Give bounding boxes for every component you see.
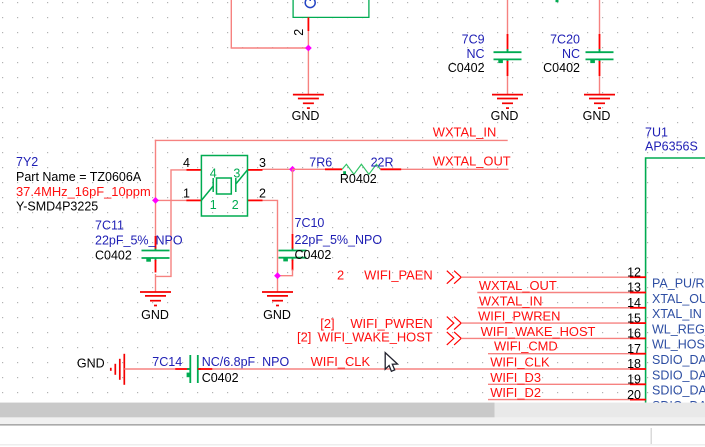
svg-text:[2]: [2] bbox=[297, 329, 311, 344]
wire WIFI_PAEN to pin 12 bbox=[461, 276, 631, 278]
ground symbol below U5 bbox=[293, 95, 324, 109]
power glyph inside U5 bbox=[305, 0, 315, 8]
crystal Y2 body bbox=[201, 156, 247, 217]
pin stub top of C20 bbox=[599, 34, 601, 50]
svg-text:2: 2 bbox=[292, 29, 306, 36]
svg-text:SDIO_DATA_0: SDIO_DATA_0 bbox=[652, 384, 705, 398]
svg-text:C0402: C0402 bbox=[202, 371, 239, 385]
pin stub right of C14 bbox=[198, 368, 213, 370]
junction node XIN bbox=[152, 197, 159, 204]
svg-text:WXTAL_OUT: WXTAL_OUT bbox=[479, 278, 557, 293]
svg-text:WIFI_D3: WIFI_D3 bbox=[490, 370, 541, 385]
pin stub left of C14 bbox=[175, 368, 190, 370]
svg-text:SDIO_DATA_3: SDIO_DATA_3 bbox=[652, 368, 705, 382]
svg-text:C0402: C0402 bbox=[543, 61, 580, 75]
wire junction down to C10 bbox=[292, 169, 294, 235]
resistor R6 green dot bbox=[343, 171, 346, 174]
svg-text:1: 1 bbox=[210, 198, 217, 212]
resistor R6 right stub bbox=[380, 168, 401, 170]
svg-text:WIFI_WAKE_HOST: WIFI_WAKE_HOST bbox=[318, 329, 433, 344]
resistor R6 zigzag bbox=[342, 164, 380, 174]
svg-text:SDIO_DATA_2: SDIO_DATA_2 bbox=[652, 353, 705, 367]
svg-text:C0402: C0402 bbox=[295, 248, 332, 262]
U1 pin 19 stub bbox=[630, 383, 646, 385]
pin stub bottom of C11 bbox=[155, 260, 157, 273]
capacitor C14 (7C14) rotated bbox=[187, 355, 201, 383]
svg-text:1: 1 bbox=[183, 187, 190, 201]
svg-text:18: 18 bbox=[627, 357, 641, 371]
wire net WXTAL_IN vertical down to C11 bbox=[155, 140, 157, 251]
wire above capacitor C9 bbox=[507, 0, 509, 36]
svg-text:C0402: C0402 bbox=[448, 61, 485, 75]
svg-text:R0402: R0402 bbox=[340, 172, 377, 186]
wire net GND horizontal to junction bbox=[231, 47, 309, 49]
svg-text:17: 17 bbox=[627, 342, 641, 356]
svg-text:WIFI_D2: WIFI_D2 bbox=[490, 385, 541, 400]
svg-text:GND: GND bbox=[77, 356, 105, 370]
svg-text:WL_HOST_WAKE: WL_HOST_WAKE bbox=[652, 338, 705, 352]
svg-text:16: 16 bbox=[627, 327, 641, 341]
wire WIFI_CMD to pin 17 bbox=[488, 353, 631, 355]
wire net WXTAL_IN horizontal bbox=[155, 139, 508, 141]
svg-text:3: 3 bbox=[259, 156, 266, 170]
wire crystal pin2 down to ground bbox=[263, 200, 278, 292]
svg-text:22pF_5%_NPO: 22pF_5%_NPO bbox=[95, 233, 183, 247]
svg-text:PA_PU/RF_DIS: PA_PU/RF_DIS bbox=[652, 277, 705, 291]
svg-text:19: 19 bbox=[627, 373, 641, 387]
U1 pin 17 stub bbox=[630, 353, 646, 355]
svg-text:2: 2 bbox=[259, 187, 266, 201]
svg-text:22R: 22R bbox=[371, 155, 394, 169]
U1 pin 18 stub bbox=[630, 368, 646, 370]
svg-text:3: 3 bbox=[233, 166, 240, 180]
pin 2 stub of U5 bbox=[307, 17, 309, 31]
svg-text:WIFI_CLK: WIFI_CLK bbox=[490, 355, 550, 370]
svg-text:37.4MHz_16pF_10ppm: 37.4MHz_16pF_10ppm bbox=[16, 184, 151, 199]
wire WIFI_D3 to pin 19 bbox=[488, 383, 631, 385]
pin stub top of C9 bbox=[507, 34, 509, 50]
svg-text:NC: NC bbox=[467, 47, 485, 61]
svg-text:22pF_5%_NPO: 22pF_5%_NPO bbox=[295, 233, 383, 247]
capacitor C9 (7C9) bbox=[494, 49, 522, 63]
svg-text:WIFI_CMD: WIFI_CMD bbox=[494, 339, 558, 354]
wire net GND top-left vertical bbox=[230, 0, 232, 48]
svg-text:14: 14 bbox=[627, 296, 641, 310]
wire WXTAL_OUT to pin 13 bbox=[477, 292, 631, 294]
svg-text:4: 4 bbox=[183, 156, 190, 170]
wire C11 to ground bbox=[155, 274, 157, 292]
component U1 box bbox=[646, 158, 705, 403]
capacitor C10 (7C10) bbox=[279, 247, 307, 261]
junction node GND bbox=[305, 45, 312, 52]
wire junction to crystal pin 1 bbox=[156, 199, 188, 201]
svg-text:XTAL_IN: XTAL_IN bbox=[652, 307, 702, 321]
U1 pin 13 stub bbox=[630, 292, 646, 294]
scrollbar bbox=[0, 403, 705, 418]
svg-text:7R6: 7R6 bbox=[309, 155, 332, 169]
svg-text:2: 2 bbox=[232, 198, 239, 212]
crystal Y2 pin 4 stub bbox=[186, 169, 201, 171]
svg-text:WXTAL_IN: WXTAL_IN bbox=[433, 125, 497, 140]
svg-text:7Y2: 7Y2 bbox=[16, 155, 38, 169]
svg-text:WIFI_PAEN: WIFI_PAEN bbox=[364, 268, 433, 283]
wire net WXTAL_OUT right of R6 bbox=[401, 168, 509, 170]
pin stub top of C11 bbox=[155, 236, 157, 249]
ground symbol below C20 bbox=[584, 95, 615, 109]
crystal Y2 pin 1 stub bbox=[186, 199, 201, 201]
svg-text:GND: GND bbox=[292, 109, 320, 123]
svg-text:15: 15 bbox=[627, 311, 641, 325]
U1 pin 20 stub bbox=[630, 399, 646, 401]
wire C9 to ground bbox=[507, 76, 509, 95]
svg-text:C0402: C0402 bbox=[95, 248, 132, 262]
wire GND to C14 bbox=[124, 368, 176, 370]
crystal Y2 pin 3 stub bbox=[248, 169, 263, 171]
svg-text:AP6356S: AP6356S bbox=[645, 139, 698, 153]
svg-text:2: 2 bbox=[337, 268, 344, 283]
U1 pin 12 stub bbox=[630, 276, 646, 278]
pin stub top of C10 bbox=[292, 234, 294, 249]
svg-text:7C10: 7C10 bbox=[295, 216, 325, 230]
svg-text:Y-SMD4P3225: Y-SMD4P3225 bbox=[16, 199, 98, 213]
svg-text:NC/6.8pF NPO: NC/6.8pF NPO bbox=[202, 355, 290, 369]
wire pin3 to junction bbox=[263, 168, 293, 170]
svg-text:GND: GND bbox=[491, 109, 519, 123]
svg-text:WIFI_WAKE_HOST: WIFI_WAKE_HOST bbox=[481, 324, 596, 339]
wire from U5 pin 2 down to GND symbol bbox=[307, 31, 309, 95]
svg-text:GND: GND bbox=[263, 308, 291, 322]
capacitor C20 (7C20) bbox=[586, 49, 614, 63]
wire WIFI_CLK from C14 to pin 18 bbox=[212, 368, 631, 370]
wire to resistor R6 bbox=[293, 168, 327, 170]
ground symbol rotated for C14 bbox=[111, 354, 125, 385]
svg-text:7C11: 7C11 bbox=[95, 218, 124, 232]
green tick top edge bbox=[556, 0, 559, 2]
svg-text:12: 12 bbox=[627, 265, 641, 279]
svg-text:WIFI_PWREN: WIFI_PWREN bbox=[478, 309, 560, 324]
svg-text:4: 4 bbox=[210, 166, 217, 180]
svg-text:13: 13 bbox=[627, 281, 641, 295]
ground symbol below C11 bbox=[140, 292, 171, 306]
svg-text:7C9: 7C9 bbox=[462, 33, 485, 47]
svg-text:GND: GND bbox=[583, 109, 611, 123]
svg-text:WXTAL_IN: WXTAL_IN bbox=[479, 293, 543, 308]
wire WXTAL_IN to pin 14 bbox=[477, 307, 631, 309]
svg-text:XTAL_OUT: XTAL_OUT bbox=[652, 292, 705, 306]
crystal Y2 pin 2 stub bbox=[248, 199, 263, 201]
svg-text:7C14: 7C14 bbox=[152, 355, 182, 369]
U1 pin 14 stub bbox=[630, 307, 646, 309]
ground symbol below C10 bbox=[262, 292, 293, 306]
junction node XOUT bbox=[289, 166, 296, 173]
pin stub bottom of C10 bbox=[292, 260, 294, 271]
component U5 partial box top bbox=[293, 0, 369, 17]
svg-text:WIFI_CLK: WIFI_CLK bbox=[311, 354, 371, 369]
svg-text:WL_REG_ON: WL_REG_ON bbox=[652, 322, 705, 336]
svg-text:GND: GND bbox=[141, 308, 169, 322]
wire C10 bottom to junction bbox=[278, 270, 293, 276]
pin stub bottom of C20 bbox=[599, 61, 601, 76]
svg-text:7U1: 7U1 bbox=[645, 125, 668, 139]
wire WIFI_D2 to pin 20 bbox=[488, 399, 631, 401]
wire pin4 to ground of C11 bbox=[156, 170, 187, 277]
ground symbol below C9 bbox=[492, 95, 523, 109]
off-page connector WIFI_PWREN bbox=[447, 317, 461, 330]
pin stub bottom of C9 bbox=[507, 61, 509, 76]
status bar bbox=[0, 417, 705, 424]
mouse cursor bbox=[385, 353, 397, 372]
off-page connector WIFI_WAKE_HOST bbox=[447, 332, 461, 345]
wire WIFI_PWREN to pin 15 bbox=[461, 322, 631, 324]
svg-text:WXTAL_OUT: WXTAL_OUT bbox=[433, 153, 511, 168]
wire above capacitor C20 bbox=[599, 0, 601, 36]
wire WIFI_WAKE_HOST to pin 16 bbox=[461, 337, 631, 339]
svg-text:20: 20 bbox=[627, 388, 641, 402]
svg-text:Part Name = TZ0606A: Part Name = TZ0606A bbox=[16, 170, 142, 184]
junction node pin2/C10 bbox=[274, 272, 281, 279]
wire C20 to ground bbox=[599, 76, 601, 95]
capacitor C11 (7C11) bbox=[142, 247, 170, 261]
resistor R6 left stub bbox=[325, 168, 342, 170]
svg-text:7C20: 7C20 bbox=[550, 33, 580, 47]
U1 pin 16 stub bbox=[630, 337, 646, 339]
off-page connector WIFI_PAEN bbox=[447, 271, 461, 284]
svg-text:NC: NC bbox=[562, 47, 580, 61]
U1 pin 15 stub bbox=[630, 322, 646, 324]
